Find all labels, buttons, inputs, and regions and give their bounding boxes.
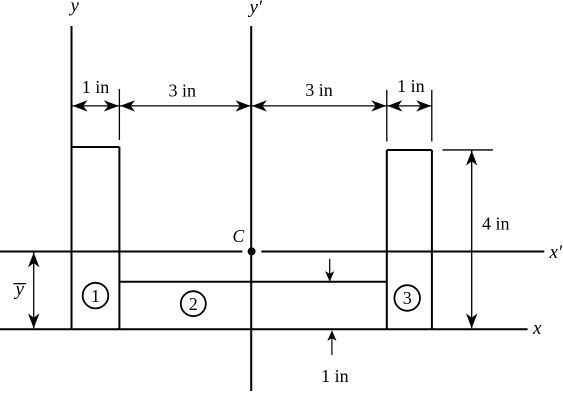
small arrowhead down at web top	[325, 271, 334, 282]
arrowhead left at y axis	[73, 100, 88, 111]
right flange top edge	[387, 149, 432, 151]
extension tick at x=431.8	[431, 90, 433, 142]
ybar dimension line	[33, 253, 35, 329]
svg-text:C: C	[233, 226, 245, 246]
bottom 1 in arrow shaft (up)	[331, 332, 333, 356]
svg-text:1 in: 1 in	[321, 366, 349, 386]
svg-text:3 in: 3 in	[169, 81, 197, 101]
4 in dimension line	[471, 151, 473, 329]
arrowhead up ybar top	[28, 252, 39, 267]
svg-text:1: 1	[91, 286, 100, 306]
small arrowhead up at x axis	[327, 330, 336, 341]
svg-text:3: 3	[403, 288, 412, 308]
y axis	[71, 26, 73, 329]
ybar overline	[14, 283, 27, 285]
arrowhead up 4in top	[466, 151, 477, 166]
svg-text:2: 2	[189, 294, 198, 314]
arrowhead right at tick3	[416, 100, 431, 111]
svg-text:3 in: 3 in	[305, 80, 333, 100]
circle label 2	[181, 291, 206, 316]
svg-text:y: y	[14, 279, 25, 300]
arrowhead right at tick2	[371, 100, 386, 111]
right flange left edge	[386, 150, 388, 329]
arrowhead down 4in bottom	[466, 313, 477, 328]
arrowhead right at y' axis	[236, 100, 251, 111]
x' axis right segment	[261, 251, 544, 253]
left flange top edge	[72, 146, 120, 148]
svg-text:1 in: 1 in	[397, 76, 425, 96]
svg-text:y: y	[69, 0, 80, 17]
x' axis left segment	[0, 251, 242, 253]
web thickness arrow shaft (down)	[329, 259, 331, 281]
svg-text:x: x	[532, 318, 542, 339]
extension tick at x=386.8	[386, 90, 388, 142]
svg-text:x′: x′	[549, 242, 563, 263]
4 in top tick	[442, 149, 493, 151]
svg-text:1 in: 1 in	[82, 77, 110, 97]
arrowhead left at tick2	[387, 100, 402, 111]
centroid dot C	[248, 247, 256, 255]
arrowhead left at y' axis	[252, 100, 267, 111]
extension tick at x=119.4	[118, 89, 120, 140]
arrowhead right at tick1	[104, 100, 119, 111]
svg-text:4 in: 4 in	[482, 213, 510, 233]
circle label 1	[83, 283, 109, 309]
right flange right edge	[431, 150, 433, 329]
left flange right edge	[118, 147, 120, 329]
x axis	[0, 328, 528, 330]
arrowhead left at tick1	[120, 100, 135, 111]
svg-text:y′: y′	[248, 0, 263, 18]
y' axis	[250, 26, 252, 391]
arrowhead down ybar bottom	[28, 313, 39, 328]
web top edge	[119, 281, 386, 283]
circle label 3	[394, 285, 420, 311]
top dimension line	[72, 105, 431, 107]
